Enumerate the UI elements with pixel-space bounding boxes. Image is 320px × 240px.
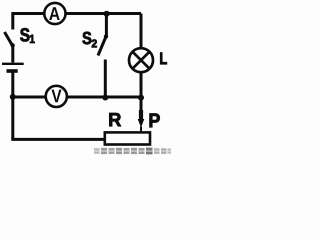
label L (160, 53, 167, 65)
lamp L circle (129, 48, 153, 72)
wire lamp branch vertical (140, 14, 143, 112)
wire middle horizontal (voltmeter row) (13, 96, 141, 99)
voltmeter label V (52, 90, 62, 103)
node junction top (S2 branch / top wire) (104, 11, 110, 17)
node junction left (left wire / voltmeter wire) (10, 94, 16, 100)
voltmeter V1 circle (46, 86, 67, 107)
switch S1 blade (5, 32, 13, 46)
wire left vertical upper (to switch S1) (11, 12, 14, 30)
label R (109, 113, 121, 126)
wire top horizontal (13, 12, 141, 15)
switch S2 upper contact (104, 34, 108, 38)
label S2 (83, 32, 92, 45)
wire S2 branch upper (105, 14, 108, 38)
label P (150, 114, 160, 128)
label S1 subscript 1 (30, 35, 35, 43)
watermark (gray chinese text imitation) (94, 148, 171, 155)
label S2 subscript 2 (92, 40, 97, 48)
ammeter A1 circle (44, 3, 65, 24)
battery negative plate (short thick) (7, 69, 18, 73)
potentiometer slider arrow P (138, 110, 145, 133)
wire left vertical (switch S1 to battery) (11, 44, 14, 63)
node junction S2 bottom (102, 95, 108, 101)
wire bottom horizontal (11, 138, 105, 141)
wire left vertical lower (battery to bottom corner) (11, 72, 14, 139)
ammeter label A (49, 7, 60, 20)
switch S1 lower contact (10, 43, 14, 47)
battery positive plate (long) (2, 63, 24, 65)
resistor R body (105, 132, 150, 144)
label S1 (20, 28, 29, 41)
lamp L cross (133, 52, 149, 68)
wire S2 branch lower (104, 60, 107, 98)
node junction lamp branch / voltmeter wire (138, 95, 144, 101)
switch S2 blade (98, 37, 106, 56)
